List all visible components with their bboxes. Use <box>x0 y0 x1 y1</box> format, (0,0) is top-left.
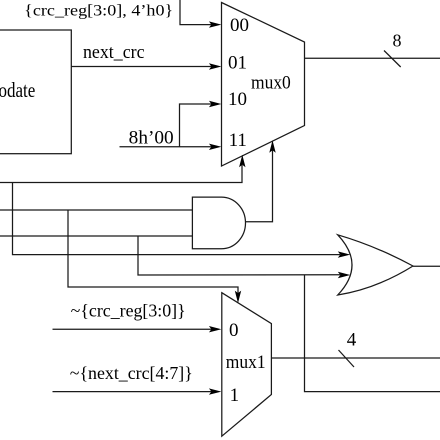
svg-text:mux0: mux0 <box>251 73 291 94</box>
svg-text:00: 00 <box>230 15 249 36</box>
svg-text:~{crc_reg[3:0]}: ~{crc_reg[3:0]} <box>71 301 186 321</box>
svg-text:10: 10 <box>228 89 247 110</box>
svg-text:{crc_reg[3:0], 4’h0}: {crc_reg[3:0], 4’h0} <box>24 3 173 20</box>
svg-text:~{next_crc[4:7]}: ~{next_crc[4:7]} <box>70 363 193 383</box>
svg-text:0: 0 <box>229 320 239 341</box>
svg-text:odate: odate <box>0 78 35 102</box>
svg-text:next_crc: next_crc <box>83 42 145 63</box>
svg-text:1: 1 <box>230 385 240 406</box>
svg-text:8: 8 <box>393 31 402 51</box>
svg-text:8h’00: 8h’00 <box>129 129 174 149</box>
svg-text:01: 01 <box>228 52 247 73</box>
svg-text:11: 11 <box>229 130 247 151</box>
svg-text:4: 4 <box>347 330 357 351</box>
svg-text:mux1: mux1 <box>226 352 266 373</box>
